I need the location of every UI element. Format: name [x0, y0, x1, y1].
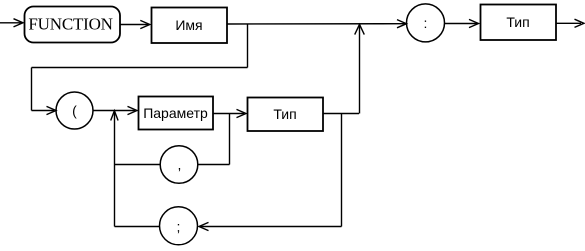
wire Имя to colon circle [227, 23, 406, 25]
svg-text:FUNCTION: FUNCTION [28, 15, 112, 34]
wire into open-paren circle [32, 110, 55, 112]
svg-text:Имя: Имя [175, 17, 202, 33]
svg-text:Тип: Тип [506, 14, 529, 30]
wire vertical left branch [31, 68, 33, 111]
svg-text:Тип: Тип [273, 106, 296, 122]
arrowhead into FUNCTION [14, 19, 24, 27]
nonterminal box Параметр [139, 97, 214, 130]
arrowhead into Тип second row [237, 109, 247, 117]
wire horizontal branch [32, 67, 248, 69]
arrowhead into semicolon circle [199, 222, 209, 230]
wire semicolon loop right [199, 226, 342, 228]
wire comma branch down [229, 114, 231, 165]
svg-text:,: , [178, 157, 182, 173]
svg-text:Параметр: Параметр [143, 105, 208, 121]
wire open-paren to Параметр [93, 110, 135, 112]
arrowhead into Тип top [469, 19, 479, 27]
terminal circle comma [160, 146, 198, 184]
arrowhead rejoin top line [355, 24, 365, 34]
terminal circle colon [407, 4, 445, 42]
arrowhead into Параметр [128, 106, 138, 114]
terminal circle semicolon [160, 207, 198, 245]
wire Параметр to Тип [213, 113, 244, 115]
nonterminal box Имя [152, 8, 228, 44]
arrowhead loop-return up [111, 111, 118, 121]
wire comma loop left [115, 164, 160, 166]
wire start entry [0, 22, 22, 24]
terminal circle open-paren [56, 92, 93, 129]
nonterminal box Тип top [481, 5, 557, 41]
terminal box FUNCTION [25, 7, 121, 43]
arrowhead exit right edge [575, 19, 585, 27]
wire Тип to up vertical [323, 113, 359, 115]
wire semicolon branch down [341, 114, 343, 227]
arrowhead into open-paren circle [47, 106, 57, 114]
wire exit [556, 22, 581, 24]
nonterminal box Тип second row [248, 98, 324, 132]
wire vertical up rejoin top [359, 25, 361, 114]
wire comma loop right [198, 164, 230, 166]
arrowhead into Имя [140, 20, 150, 28]
wire FUNCTION to Имя [120, 24, 148, 26]
arrowhead into colon circle [397, 20, 407, 28]
svg-text::: : [424, 15, 428, 31]
svg-text:(: ( [72, 102, 77, 118]
wire colon to Тип top [445, 23, 478, 25]
wire branch down after Имя [247, 24, 249, 68]
svg-text:;: ; [177, 219, 181, 235]
wire semicolon loop left [115, 226, 160, 228]
wire loop-return vertical left [114, 111, 116, 227]
